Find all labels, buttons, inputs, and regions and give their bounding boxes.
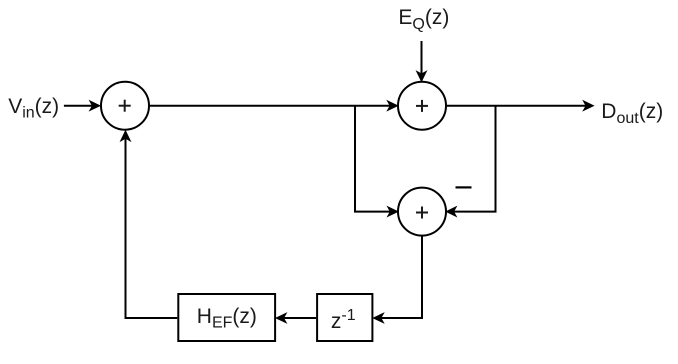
svg-text:EQ(z): EQ(z) [398, 6, 449, 33]
svg-text:Vin(z): Vin(z) [8, 95, 59, 122]
